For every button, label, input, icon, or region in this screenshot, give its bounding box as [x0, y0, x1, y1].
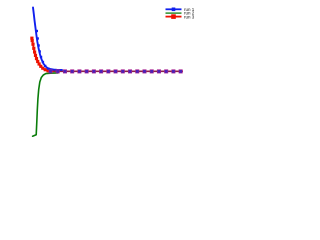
- merged line markers (violet squares): [49, 70, 52, 73]
- blue curve series (steep descent from top): [33, 8, 62, 70]
- green curve series (rising from bottom left): [33, 73, 58, 136]
- red curve series (descending with square markers): [32, 38, 53, 71]
- legend blue entry line: [166, 8, 182, 10]
- red curve markers: [30, 37, 33, 40]
- legend green entry line: [166, 12, 182, 14]
- legend blue entry marker: [172, 8, 176, 12]
- merged asymptote line (red+blue+green overlap): [48, 70, 183, 72]
- legend red entry line: [166, 16, 182, 18]
- svg-text:run 3: run 3: [184, 14, 195, 19]
- legend red entry marker: [171, 14, 176, 19]
- blue curve markers: [36, 30, 38, 32]
